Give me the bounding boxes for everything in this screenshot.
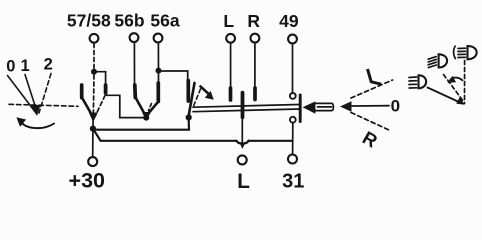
terminal +30: [88, 157, 97, 166]
end bar thick right: [299, 95, 302, 122]
left fan line 0: [8, 76, 37, 114]
left dashed horizontal line: [9, 104, 78, 106]
middle V apex arrowhead: [143, 113, 150, 121]
svg-text:+30: +30: [69, 168, 106, 192]
svg-text:R: R: [359, 127, 381, 152]
svg-text:0: 0: [391, 97, 400, 116]
left wiper arm solid: [82, 98, 93, 116]
right fan dashed L line: [351, 80, 393, 98]
junction dot middle V: [143, 115, 149, 121]
wire 56a branch: [159, 71, 188, 81]
far right rotation arrow: [451, 78, 463, 81]
junction dot right V: [186, 114, 192, 120]
junction dot 56a branch: [156, 68, 162, 74]
wire hop under bottom L: [237, 141, 249, 144]
svg-text:56a: 56a: [150, 10, 179, 30]
right fan dashed R line: [351, 113, 390, 131]
svg-text:1: 1: [21, 57, 30, 75]
headlight icon main beam left: [409, 75, 426, 88]
terminal 57/58: [90, 34, 99, 43]
right wiper arm solid: [189, 83, 195, 115]
wire 57/58 branch: [94, 72, 106, 85]
actuation arrow at bar: [201, 86, 209, 93]
terminal 56a: [154, 34, 163, 43]
terminal 56b: [130, 33, 139, 42]
wire horizontal lower bus: [93, 129, 237, 141]
right fan line 0: [351, 105, 390, 107]
middle wiper arm from 56a: [148, 103, 158, 115]
wire 49 drop: [292, 43, 294, 92]
middle wiper arm from 56b: [136, 98, 146, 116]
contact 56a thick: [156, 83, 160, 102]
terminal L top: [226, 34, 235, 43]
contact tip 57/58 branch: [104, 85, 108, 93]
svg-text:57/58: 57/58: [67, 10, 111, 30]
middle wiper dashed alt: [149, 104, 152, 111]
contact crossing thick at bottom L: [241, 93, 245, 118]
contact small circle above bar: [290, 93, 296, 99]
right fan label L rotated: [368, 69, 382, 84]
left wiper arm dashed: [96, 96, 106, 116]
far right fan solid line with arrowhead: [428, 88, 460, 103]
far right fan dashed middle line: [444, 75, 464, 102]
svg-text:L: L: [223, 11, 234, 31]
parking light icon top right: [454, 46, 477, 59]
right fan arrow to lever: [340, 101, 352, 111]
junction dot left V: [90, 126, 96, 132]
contact 56a right thick bar: [186, 81, 190, 102]
contact R top thick: [253, 88, 257, 100]
wire 56b drop: [133, 43, 135, 86]
wire L top drop: [230, 43, 232, 88]
left wiper fixed bar: [80, 85, 84, 98]
bridge bar bottom line: [193, 109, 299, 112]
bridge bar top line: [193, 105, 299, 108]
wire horizontal mid bus: [93, 120, 189, 130]
junction dot 57/58 branch: [91, 69, 97, 75]
svg-text:0: 0: [6, 58, 15, 76]
wire dot to +30: [92, 129, 94, 158]
svg-text:31: 31: [282, 170, 304, 192]
bracket wire apex to 57/58 contact: [107, 95, 147, 117]
contact L top thick: [229, 88, 233, 100]
wire R top drop: [254, 43, 256, 88]
left V apex arrowhead: [90, 113, 98, 121]
wire 31 column: [292, 123, 294, 155]
right wiper dashed alt: [194, 89, 201, 106]
terminal R top: [251, 34, 260, 43]
left fan line 1 with arrowhead: [25, 75, 35, 106]
svg-text:L: L: [237, 170, 250, 193]
lever arrow head: [303, 101, 316, 113]
contact 56b thick: [133, 85, 137, 98]
svg-text:2: 2: [44, 56, 53, 74]
wire apex to dot: [92, 119, 94, 129]
wire 57/58 dashed drop: [93, 44, 95, 70]
svg-text:49: 49: [279, 11, 299, 31]
far right fan dashed vertical line: [464, 61, 466, 104]
svg-text:R: R: [247, 11, 260, 31]
terminal 31: [288, 155, 297, 164]
terminal L bottom: [238, 155, 247, 164]
left fan line 2 dashed: [39, 74, 51, 114]
lever arrow tail stripe: [318, 106, 332, 108]
wire bottom L drop with arrowhead: [241, 117, 243, 142]
headlight icon dipped beam middle: [428, 54, 447, 67]
lever arrow tail: [315, 103, 333, 110]
left rotation arc with arrowhead: [21, 122, 54, 128]
terminal 49: [288, 35, 297, 44]
wire 56a drop: [157, 43, 159, 83]
contact small circle below bar: [290, 117, 296, 123]
svg-text:56b: 56b: [114, 10, 144, 30]
